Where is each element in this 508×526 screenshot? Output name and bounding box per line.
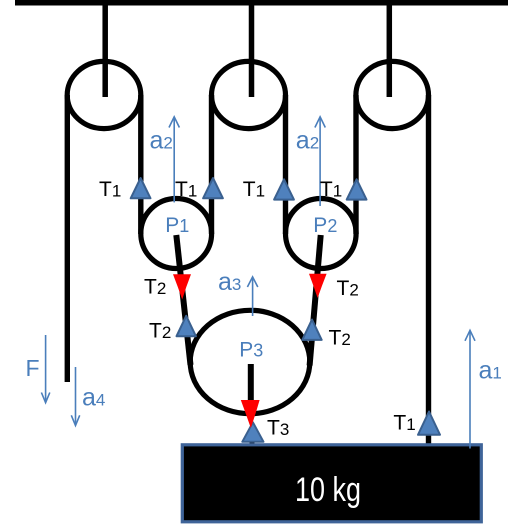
acceleration arrow a3 (above P3): [247, 277, 257, 316]
svg-text:T1: T1: [243, 178, 265, 201]
hanger pin pulley 1: [102, 3, 108, 97]
acceleration arrow a1 (right, above block): [465, 330, 475, 448]
svg-text:a4: a4: [82, 384, 105, 412]
hanger pin pulley 3: [387, 3, 393, 97]
pin P3 axle: [248, 364, 254, 403]
wire rope pulley2-left to P1-right: [209, 95, 214, 234]
svg-text:T1: T1: [320, 178, 342, 201]
wire rope pulley2-right to P2-left: [283, 95, 288, 234]
blue tension arrowhead T3 above block: [242, 422, 263, 442]
svg-text:a2: a2: [150, 127, 173, 155]
fixed pulley 1: [67, 61, 141, 128]
pin T3 to block: [250, 436, 255, 446]
wire rope left of pulley 1 (F end): [65, 95, 70, 382]
svg-text:10 kg: 10 kg: [295, 471, 361, 509]
wire P1 axle down to P3 left side: [176, 235, 190, 365]
acceleration arrow a4 (down): [71, 367, 79, 426]
svg-text:T2: T2: [144, 276, 166, 299]
blue tension arrowhead T1 on rope pulley1-right: [131, 178, 151, 198]
blue tension arrowhead T1 on rope pulley2-left: [203, 178, 223, 198]
block 10 kg: [182, 445, 481, 522]
wire rope pulley3-right down to block: [426, 95, 431, 445]
ceiling bar: [15, 0, 508, 6]
wire rope pulley3-left to P2-right: [353, 95, 358, 234]
svg-text:P1: P1: [165, 214, 189, 237]
blue tension arrowhead T2 on P1-P3 wire: [177, 316, 196, 336]
svg-text:a1: a1: [479, 357, 502, 385]
fixed pulley 3: [356, 61, 429, 128]
svg-text:T2: T2: [149, 320, 171, 343]
force arrow F (down): [41, 335, 49, 403]
red tension arrow T3 under P3: [241, 400, 260, 428]
blue tension arrowhead T2 on P2-P3 wire: [302, 320, 321, 340]
svg-text:T1: T1: [175, 178, 197, 201]
wire rope pulley1-right to P1-left: [138, 95, 143, 234]
svg-text:T2: T2: [329, 327, 351, 350]
svg-text:a2: a2: [296, 127, 319, 155]
blue tension arrowhead T1 on rope pulley3-left: [347, 179, 367, 199]
red tension arrow T2 under P1: [173, 274, 191, 299]
blue tension arrowhead T1 on rope at block: [418, 412, 440, 435]
wire P2 axle down to P3 right side: [310, 235, 321, 366]
movable pulley P1: [141, 199, 212, 269]
acceleration arrow a2 left (above P1): [169, 117, 179, 203]
blue tension arrowhead T1 on rope pulley2-right: [274, 179, 294, 199]
svg-text:P3: P3: [239, 339, 263, 362]
svg-text:P2: P2: [313, 214, 337, 237]
movable pulley P2: [286, 199, 357, 269]
movable pulley P3: [190, 310, 310, 413]
svg-text:F: F: [26, 355, 40, 381]
svg-text:T2: T2: [337, 277, 359, 300]
fixed pulley 2: [212, 61, 286, 128]
svg-text:T1: T1: [393, 412, 415, 435]
acceleration arrow a2 right (above P2): [315, 117, 325, 206]
svg-text:T3: T3: [267, 417, 289, 440]
svg-text:a3: a3: [218, 268, 241, 296]
svg-text:T1: T1: [99, 178, 121, 201]
red tension arrow T2 under P2: [309, 274, 327, 298]
hanger pin pulley 2: [249, 3, 255, 97]
